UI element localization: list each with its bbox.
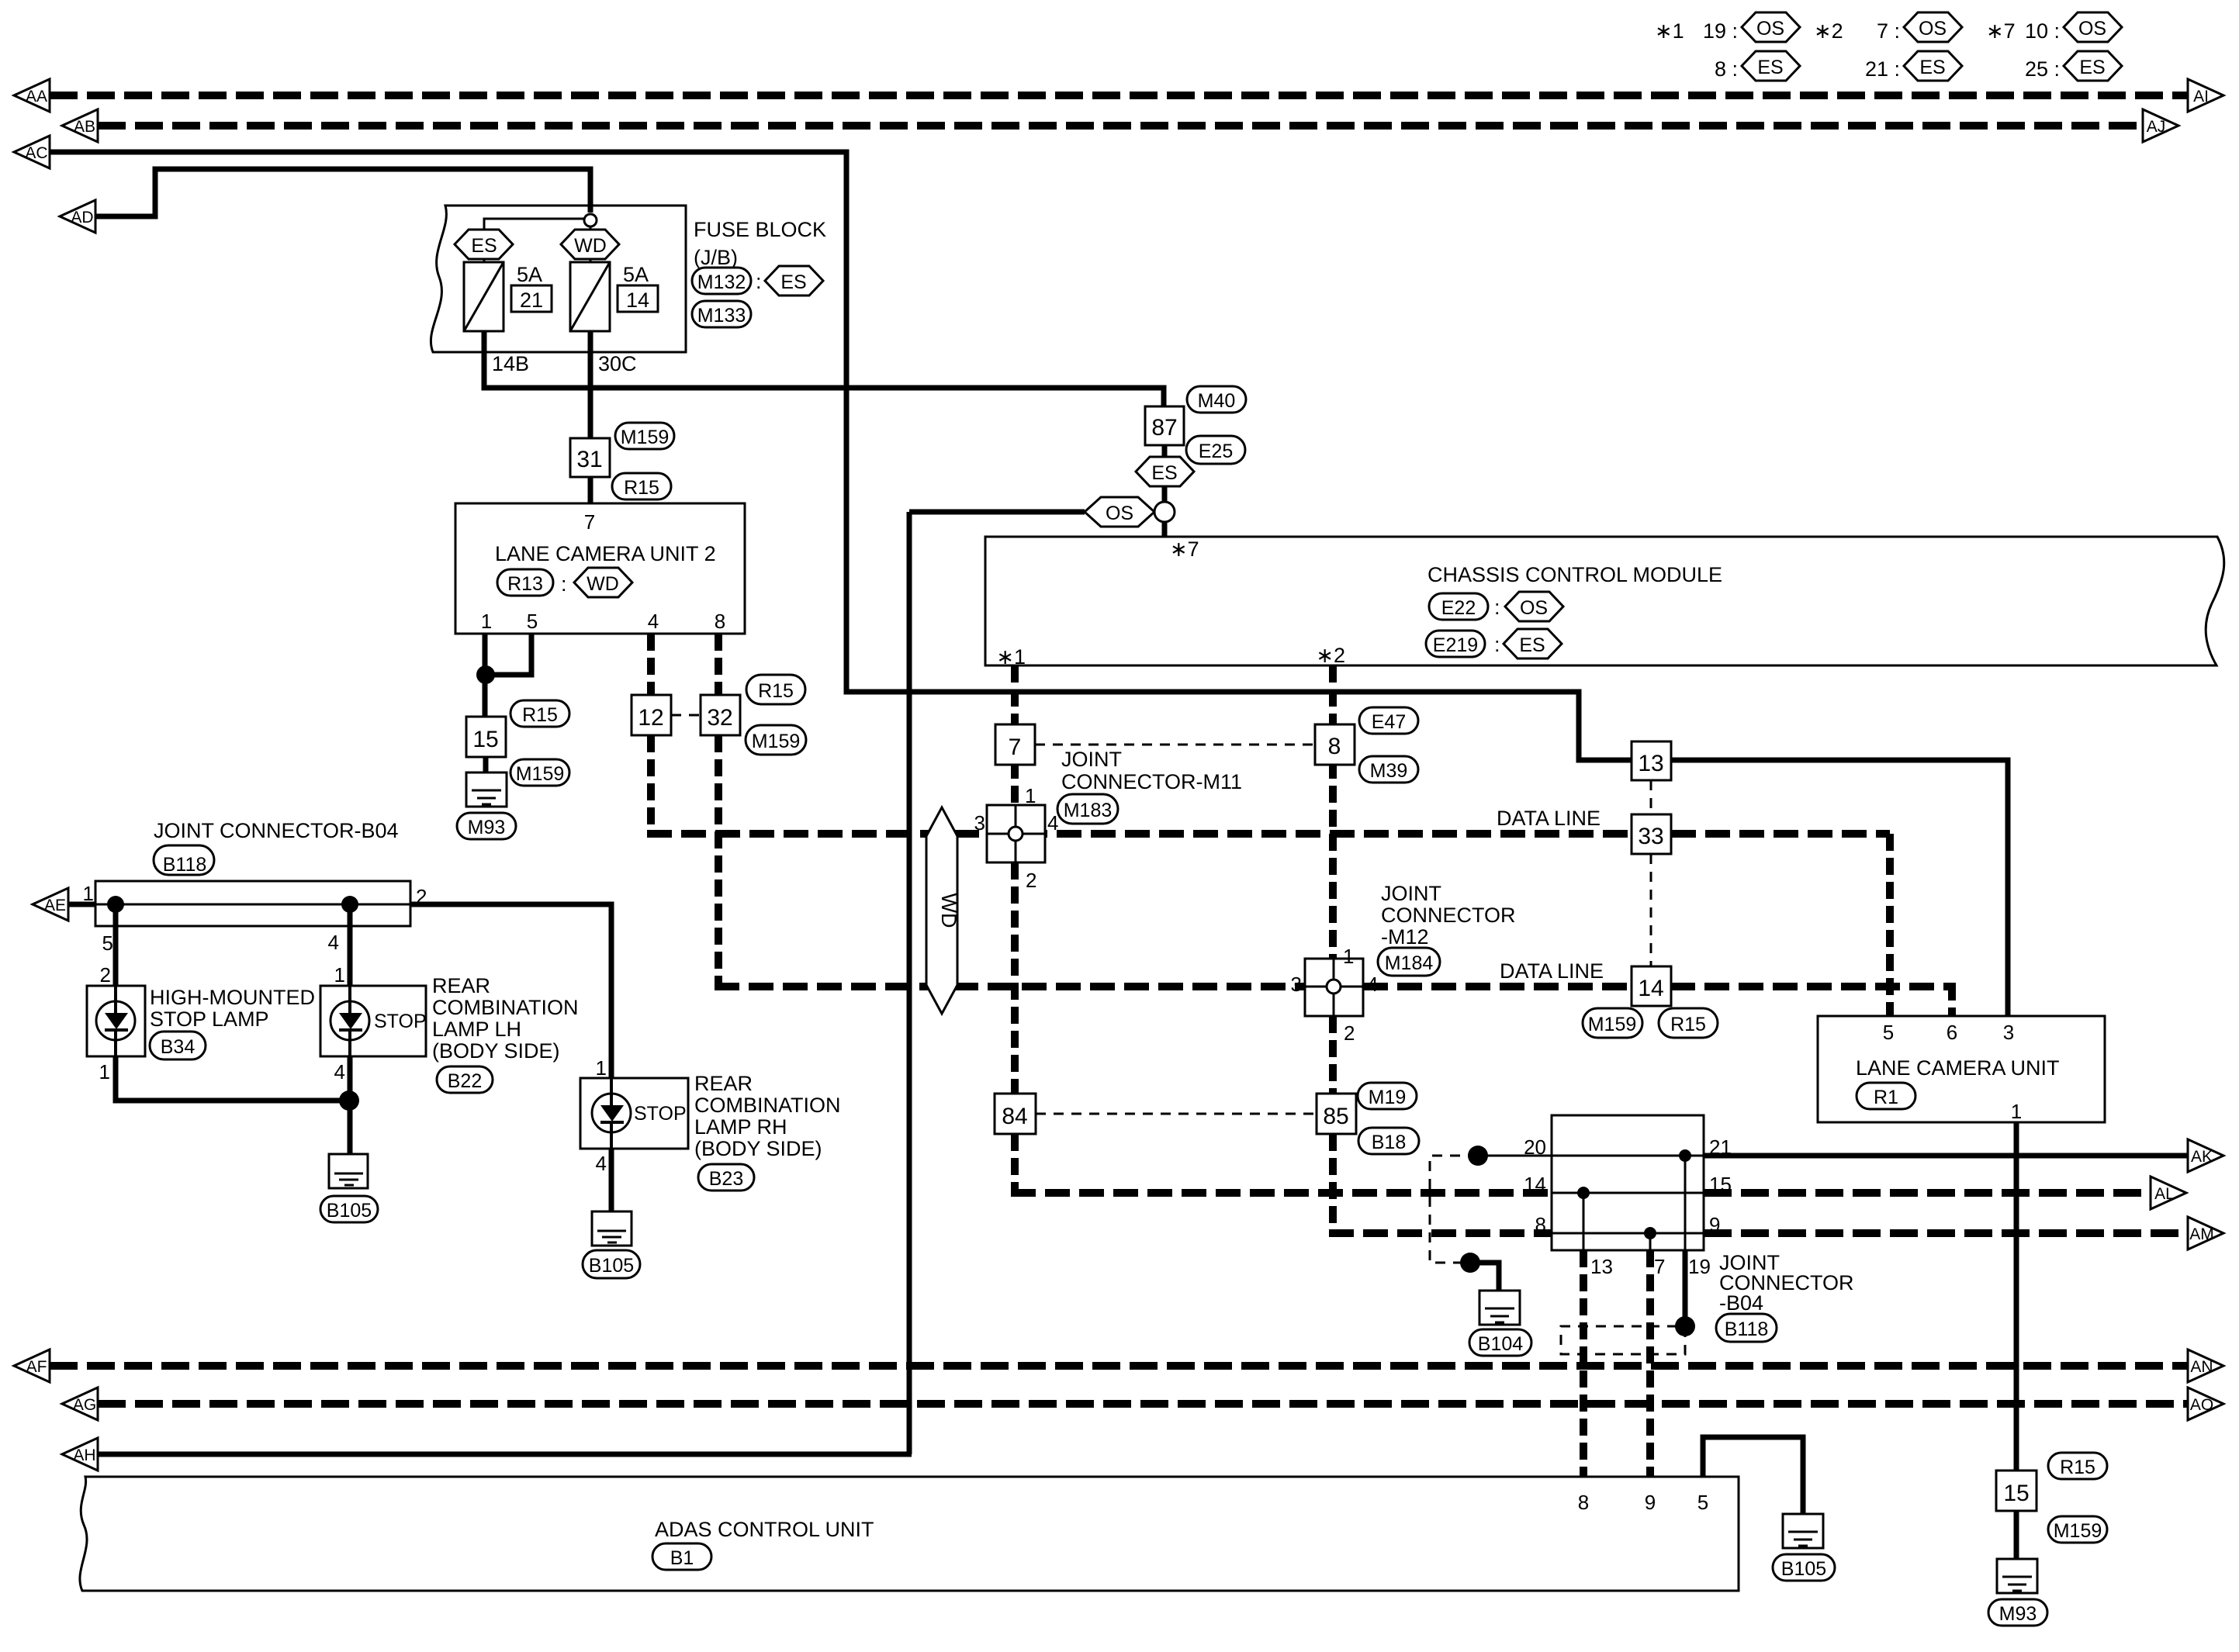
svg-text:B105: B105: [327, 1200, 372, 1222]
svg-text:8: 8: [1578, 1491, 1589, 1514]
svg-text:R15: R15: [624, 477, 659, 499]
svg-text:AI: AI: [2193, 88, 2209, 105]
svg-text:AG: AG: [73, 1396, 96, 1414]
node circle above *7: [1154, 502, 1175, 522]
svg-text:AH: AH: [73, 1446, 95, 1464]
svg-text:-B04: -B04: [1719, 1291, 1763, 1315]
junction dot pin5: [107, 896, 124, 913]
svg-text:B118: B118: [163, 854, 207, 876]
svg-text:B34: B34: [161, 1036, 196, 1058]
svg-text:ES: ES: [471, 235, 497, 257]
svg-text:8: 8: [1535, 1213, 1546, 1236]
svg-text:3: 3: [974, 811, 985, 835]
svg-text:5: 5: [527, 610, 538, 633]
svg-text:B22: B22: [448, 1070, 482, 1092]
svg-text:AN: AN: [2190, 1358, 2213, 1376]
svg-text:5: 5: [102, 931, 113, 955]
wire 14B from fuse 21 to connector 87: [484, 331, 1164, 406]
junction dot pin13 top: [1577, 1187, 1590, 1199]
connector 85 M19/B18: [1317, 1083, 1419, 1154]
svg-text:21: 21: [520, 289, 543, 312]
wire thin from circle to ES hex riser: [484, 219, 585, 230]
joint connector M12 (M184) cross: [1291, 882, 1516, 1045]
joint connector M11 (M183) cross: [974, 748, 1243, 892]
svg-text:19: 19: [1688, 1255, 1711, 1278]
arrow AD: [60, 200, 95, 233]
ground B105 right: [1773, 1514, 1835, 1581]
svg-text:DATA LINE: DATA LINE: [1497, 807, 1601, 830]
svg-text:8 :: 8 :: [1715, 57, 1738, 81]
connector 87 M40/E25: [1145, 386, 1246, 464]
wire pin5 to junction: [486, 634, 531, 675]
arrow AO: [2188, 1388, 2223, 1420]
svg-text:JOINT: JOINT: [1061, 748, 1122, 771]
svg-text:1: 1: [596, 1056, 607, 1080]
arrow AF: [14, 1350, 50, 1382]
svg-text:31: 31: [576, 447, 602, 472]
svg-text:4: 4: [648, 610, 659, 633]
svg-text:M40: M40: [1198, 390, 1236, 412]
wire striped down to lane camera pin6: [1948, 983, 1956, 1016]
arrow AN: [2188, 1350, 2223, 1382]
svg-text:M93: M93: [468, 817, 506, 838]
dashed ground bus rect: [1561, 1326, 1685, 1354]
svg-text:B104: B104: [1478, 1333, 1523, 1355]
svg-text:R13: R13: [507, 573, 543, 595]
svg-text:FUSE BLOCK: FUSE BLOCK: [694, 218, 826, 241]
wire lamp LH down to ground: [348, 1056, 353, 1174]
wire *1 striped chassis to joint connector M11: [1011, 665, 1019, 805]
svg-text:9: 9: [1645, 1491, 1656, 1514]
wire pin2 right and down to rear combination lamp RH: [410, 904, 611, 1078]
svg-text:32: 32: [707, 705, 732, 731]
svg-text:AF: AF: [26, 1358, 47, 1376]
wire striped down to lane camera pin5: [1886, 834, 1894, 1016]
dashed link 12-32: [671, 714, 701, 717]
dashed link 33-14: [1650, 854, 1652, 966]
wire from OS hex left to riser x1172: [909, 510, 1085, 515]
svg-text:CHASSIS CONTROL MODULE: CHASSIS CONTROL MODULE: [1427, 563, 1722, 586]
svg-text:-M12: -M12: [1381, 925, 1429, 949]
svg-text:E22: E22: [1441, 597, 1476, 619]
svg-text:7: 7: [1654, 1255, 1665, 1278]
svg-text:OS: OS: [2078, 18, 2106, 40]
wire ES hex to node: [1162, 486, 1168, 503]
svg-text:ES: ES: [1151, 462, 1177, 484]
fuse 14 5A: [570, 259, 658, 331]
svg-text:3: 3: [1291, 973, 1302, 996]
svg-text:AE: AE: [44, 897, 66, 914]
connector 7 E47 side: [995, 724, 1035, 765]
arrow AH: [62, 1438, 98, 1471]
wire ADAS pin5 to ground B105: [1703, 1437, 1803, 1532]
junction dot B104: [1460, 1253, 1480, 1273]
svg-text:14: 14: [1638, 976, 1663, 1001]
svg-text:REAR: REAR: [694, 1072, 753, 1095]
junction dot pins 1/5: [476, 665, 495, 684]
svg-text:M159: M159: [2054, 1520, 2102, 1542]
wire lane camera pin1 down to connector 15: [2014, 1122, 2019, 1471]
svg-text:ES: ES: [2079, 57, 2105, 78]
connector 32 R15/M159: [701, 675, 806, 755]
wire AF-AN bus: [50, 1362, 2188, 1370]
ground B105 left: [320, 1154, 378, 1222]
wire lamp B34 down right to junction: [116, 1056, 349, 1101]
junction dot pin20 shield: [1468, 1146, 1488, 1166]
wire pin20-21 line inside box: [1478, 1155, 1704, 1157]
svg-text:1: 1: [2011, 1100, 2022, 1123]
svg-text:B18: B18: [1372, 1132, 1406, 1153]
svg-text:85: 85: [1323, 1104, 1348, 1129]
svg-text:M132: M132: [697, 271, 746, 293]
arrow AJ: [2143, 109, 2178, 142]
svg-text:ES: ES: [1919, 57, 1945, 78]
wire *2 striped below M184 to 85: [1329, 1016, 1337, 1094]
wire *2 striped chassis to joint connector M12: [1329, 665, 1337, 959]
wire 87 to ES hex: [1162, 445, 1168, 459]
connector 13 on solid line: [1632, 741, 1671, 780]
connector 12: [632, 695, 671, 735]
node circle on fuse block top: [584, 214, 597, 226]
svg-text:WD: WD: [587, 573, 619, 595]
connector 15 R15/M159 right: [1996, 1453, 2107, 1543]
svg-text:B23: B23: [709, 1168, 743, 1190]
svg-text:2: 2: [1344, 1021, 1355, 1045]
svg-text:4: 4: [1047, 811, 1058, 835]
ground B104: [1469, 1291, 1531, 1356]
svg-text:∗1: ∗1: [1655, 19, 1684, 43]
fuse 21 5A: [464, 259, 552, 331]
junction dot pin7 top: [1644, 1227, 1656, 1239]
wire lamp RH down to ground: [609, 1149, 614, 1231]
hexagon ES below 87: [1136, 457, 1194, 486]
svg-text:LAMP RH: LAMP RH: [694, 1115, 787, 1139]
svg-text:1: 1: [481, 610, 492, 633]
legend note *1 19:OS 8:ES: [1655, 12, 1800, 81]
svg-text:R15: R15: [522, 704, 558, 726]
arrow AE: [33, 888, 68, 921]
svg-text:4: 4: [1367, 973, 1378, 996]
connector 84: [995, 1094, 1036, 1134]
wire pin7 striped below box to ADAS pin9: [1646, 1250, 1654, 1477]
svg-text:DATA LINE: DATA LINE: [1500, 959, 1604, 983]
wire 31 to lane camera unit 2 pin 7: [588, 477, 593, 503]
lane camera unit box R1: [1818, 1016, 2105, 1123]
svg-text:1: 1: [99, 1060, 110, 1083]
ground M93 left: [457, 772, 516, 839]
wire 30C from fuse 14 down to connector 31: [588, 331, 593, 438]
svg-text:5A: 5A: [517, 263, 542, 286]
svg-text:E47: E47: [1372, 711, 1406, 733]
joint connector -B04 (B118) box: [1524, 1115, 1853, 1342]
svg-text:14: 14: [1524, 1173, 1546, 1196]
rear combination lamp RH B23: [580, 1072, 841, 1191]
svg-text:13: 13: [1638, 751, 1663, 776]
wire pin13 striped below box to ADAS pin8: [1580, 1250, 1587, 1477]
svg-text:5: 5: [1697, 1491, 1708, 1514]
svg-text:∗1: ∗1: [996, 645, 1026, 669]
svg-text:1: 1: [334, 963, 345, 987]
dashed link 13-33: [1650, 780, 1652, 814]
svg-text:AB: AB: [74, 118, 95, 136]
svg-text:ES: ES: [1757, 57, 1783, 78]
legend note *2 7:OS 21:ES: [1814, 12, 1962, 81]
arrow AM: [2188, 1217, 2223, 1249]
svg-text:10 :: 10 :: [2025, 19, 2060, 43]
legend note *7 10:OS 25:ES: [1986, 12, 2122, 81]
svg-text:33: 33: [1638, 824, 1663, 849]
svg-text:ES: ES: [1519, 634, 1545, 656]
svg-text:(BODY SIDE): (BODY SIDE): [694, 1137, 822, 1160]
svg-text:(J/B): (J/B): [694, 246, 738, 269]
arrow AG: [62, 1388, 98, 1420]
svg-text:M184: M184: [1385, 952, 1434, 974]
svg-text:1: 1: [1343, 945, 1354, 968]
svg-text:7 :: 7 :: [1877, 19, 1900, 43]
connector 33: [1632, 814, 1671, 854]
svg-text::: :: [1494, 633, 1500, 656]
svg-text:ADAS CONTROL UNIT: ADAS CONTROL UNIT: [655, 1518, 874, 1541]
junction dot pin4: [341, 896, 358, 913]
wire AE to connector: [68, 902, 95, 907]
svg-text:OS: OS: [1756, 18, 1784, 40]
joint connector-B04 (B118) left: [83, 819, 427, 955]
arrow AK: [2188, 1139, 2223, 1172]
svg-text:4: 4: [596, 1152, 607, 1175]
svg-text:B1: B1: [670, 1547, 694, 1569]
wire pin19 below box to dot: [1683, 1250, 1688, 1326]
wire pin7 inside box down: [1649, 1233, 1652, 1250]
svg-text:M159: M159: [752, 731, 801, 752]
svg-text:8: 8: [1328, 734, 1341, 759]
svg-text:15: 15: [2003, 1481, 2029, 1506]
svg-text:JOINT CONNECTOR-B04: JOINT CONNECTOR-B04: [154, 819, 399, 842]
wire AC: right, down at 1091, right at 892, down at 2035, right at 980, down at 2588 to lane camera pin3: [50, 152, 2008, 1016]
svg-text:14B: 14B: [492, 352, 529, 375]
arrow AB: [62, 109, 98, 142]
svg-text:21 :: 21 :: [1865, 57, 1900, 81]
svg-text:LAMP LH: LAMP LH: [432, 1018, 521, 1041]
svg-text:87: 87: [1151, 415, 1177, 441]
svg-text::: :: [561, 572, 567, 596]
wire *1 striped below M183 to 84: [1011, 862, 1019, 1094]
wire 84 striped down then right to B04 pin14: [1011, 1134, 1019, 1193]
svg-text:M159: M159: [516, 763, 565, 785]
wire 15 to ground M93 right: [2014, 1511, 2019, 1576]
svg-text:∗2: ∗2: [1316, 644, 1345, 667]
chassis control module box E22/E219: [985, 537, 2224, 669]
svg-text:AL: AL: [2154, 1185, 2175, 1203]
svg-text:5: 5: [1883, 1021, 1894, 1044]
ground B105 mid: [583, 1211, 640, 1278]
svg-text:AM: AM: [2189, 1225, 2214, 1243]
dashed link 84-85: [1036, 1113, 1317, 1115]
svg-text:AD: AD: [71, 209, 93, 226]
connector 15 R15/M159 left: [466, 700, 569, 786]
wire AH to riser: [98, 1452, 912, 1457]
svg-text:LANE CAMERA UNIT: LANE CAMERA UNIT: [1856, 1056, 2060, 1080]
high-mounted stop lamp B34: [87, 986, 315, 1059]
svg-text:2: 2: [1026, 869, 1036, 892]
svg-text:AC: AC: [25, 144, 47, 162]
svg-text:M159: M159: [1588, 1014, 1637, 1035]
svg-text:AJ: AJ: [2147, 118, 2166, 136]
svg-text:R15: R15: [758, 680, 794, 702]
svg-text:M133: M133: [697, 305, 746, 327]
svg-text:14: 14: [626, 289, 649, 312]
connector 31 M159/R15: [570, 423, 674, 499]
svg-text:12: 12: [638, 705, 663, 731]
svg-text:AA: AA: [26, 88, 47, 105]
wire AM striped from pin9: [1704, 1229, 2188, 1237]
svg-text:OS: OS: [1106, 503, 1133, 524]
svg-text:6: 6: [1947, 1021, 1957, 1044]
svg-text:STOP: STOP: [374, 1011, 427, 1032]
svg-text:4: 4: [328, 931, 339, 954]
svg-text:WD: WD: [574, 235, 607, 257]
svg-text:2: 2: [100, 963, 111, 987]
svg-text:13: 13: [1590, 1255, 1613, 1278]
wire pin8-9 line inside box: [1552, 1232, 1704, 1235]
connector 14 M159/R15: [1583, 966, 1718, 1038]
wire node to chassis *7: [1162, 522, 1168, 537]
svg-text:4: 4: [334, 1060, 345, 1083]
dashed shield path to B104: [1430, 1156, 1478, 1263]
svg-text::: :: [756, 270, 762, 293]
svg-text:∗7: ∗7: [1986, 19, 2016, 43]
wire pin19 inside box down: [1684, 1156, 1687, 1250]
svg-text:CONNECTOR-M11: CONNECTOR-M11: [1061, 770, 1242, 793]
fuse block (J/B) box M132/M133: [431, 206, 826, 352]
arrow AL: [2151, 1177, 2186, 1209]
wire from 12 striped down and right (data line upper) to corner 2436: [647, 735, 655, 834]
wire pin5 down to high-mounted stop lamp: [113, 904, 119, 986]
wire from 32 striped down and right (data line lower) to corner 2516: [715, 735, 722, 987]
svg-text:(BODY SIDE): (BODY SIDE): [432, 1039, 560, 1063]
wire B104 dot to ground: [1470, 1263, 1499, 1301]
svg-text:COMBINATION: COMBINATION: [432, 996, 579, 1019]
svg-text:STOP: STOP: [634, 1103, 687, 1125]
wire AD to fuse block WD circle: [95, 169, 590, 216]
dashed link 7-8: [1035, 744, 1315, 746]
svg-text:30C: 30C: [598, 352, 637, 375]
rear combination lamp LH B22: [320, 974, 579, 1093]
svg-text:STOP LAMP: STOP LAMP: [150, 1007, 269, 1031]
svg-text:REAR: REAR: [432, 974, 490, 997]
svg-text:∗7: ∗7: [1170, 537, 1199, 561]
svg-text:OS: OS: [1520, 597, 1548, 619]
svg-text:B118: B118: [1725, 1318, 1769, 1340]
svg-text:E219: E219: [1433, 634, 1478, 656]
wire 85 striped down then right to B04 pin8: [1329, 1134, 1337, 1233]
svg-text:AK: AK: [2191, 1148, 2213, 1166]
junction dot pin19 bottom: [1675, 1316, 1695, 1336]
wire 15 to ground: [483, 757, 489, 790]
wire AL striped from pin15: [1704, 1189, 2151, 1197]
riser wire from OS hex down to AH: [907, 512, 912, 1454]
svg-text:25 :: 25 :: [2025, 57, 2060, 81]
svg-text:B105: B105: [589, 1255, 634, 1277]
arrow AA: [14, 79, 50, 112]
ADAS control unit box B1: [80, 1477, 1739, 1591]
svg-text:M159: M159: [621, 427, 670, 448]
svg-text:1: 1: [1025, 784, 1036, 807]
svg-text:M93: M93: [1999, 1603, 2037, 1625]
svg-text:8: 8: [715, 610, 725, 633]
svg-text:7: 7: [584, 510, 595, 534]
svg-text:WD: WD: [937, 893, 960, 928]
svg-text:15: 15: [472, 727, 498, 752]
svg-text:JOINT: JOINT: [1381, 882, 1441, 905]
arrow AI: [2188, 79, 2223, 112]
wire pin4 down to rear combination lamp LH: [348, 904, 353, 986]
hexagon WD above fuse 14: [561, 226, 619, 259]
svg-text:7: 7: [1009, 734, 1022, 760]
svg-text:COMBINATION: COMBINATION: [694, 1094, 841, 1117]
svg-text:AO: AO: [2190, 1396, 2213, 1414]
wire AA bus: [50, 92, 2188, 99]
wire AK from pin21: [1704, 1153, 2188, 1159]
junction dot pin19 top: [1679, 1149, 1691, 1162]
wire pin13 inside box down: [1583, 1193, 1585, 1250]
svg-text:∗2: ∗2: [1814, 19, 1843, 43]
svg-text:B105: B105: [1781, 1558, 1826, 1580]
WD banner: [926, 807, 960, 1014]
svg-text:R15: R15: [2060, 1457, 2095, 1478]
svg-text:ES: ES: [780, 271, 806, 293]
ground M93 right: [1988, 1559, 2047, 1626]
svg-text:LANE CAMERA UNIT 2: LANE CAMERA UNIT 2: [495, 542, 716, 565]
lane camera unit 2 box R13:WD: [455, 503, 745, 634]
svg-text:M39: M39: [1370, 760, 1408, 782]
svg-text:M19: M19: [1369, 1087, 1407, 1108]
arrow AC: [14, 136, 50, 168]
svg-text:19 :: 19 :: [1703, 19, 1738, 43]
connector 8 E47/M39: [1315, 707, 1418, 783]
wire pin14-15 line inside box: [1552, 1192, 1704, 1194]
svg-text:3: 3: [2003, 1021, 2014, 1044]
svg-text:OS: OS: [1919, 18, 1947, 40]
svg-text:R1: R1: [1874, 1087, 1898, 1108]
wire pin8 striped down: [715, 634, 722, 695]
junction dot lamps: [339, 1090, 359, 1111]
wire AG-AO bus: [98, 1400, 2188, 1408]
wire pin1 down: [483, 634, 488, 717]
hexagon OS on wire from AH riser: [1085, 497, 1154, 527]
svg-text:HIGH-MOUNTED: HIGH-MOUNTED: [150, 986, 315, 1009]
svg-text::: :: [1494, 596, 1500, 619]
svg-text:5A: 5A: [623, 263, 649, 286]
svg-text:M183: M183: [1064, 800, 1113, 821]
svg-text:E25: E25: [1199, 441, 1233, 462]
wire AB bus: [98, 122, 2143, 130]
svg-text:CONNECTOR: CONNECTOR: [1381, 904, 1516, 927]
svg-text:R15: R15: [1670, 1014, 1706, 1035]
svg-text:84: 84: [1002, 1104, 1027, 1129]
hexagon ES above fuse 21: [455, 230, 513, 259]
wire pin4 striped down: [647, 634, 655, 695]
